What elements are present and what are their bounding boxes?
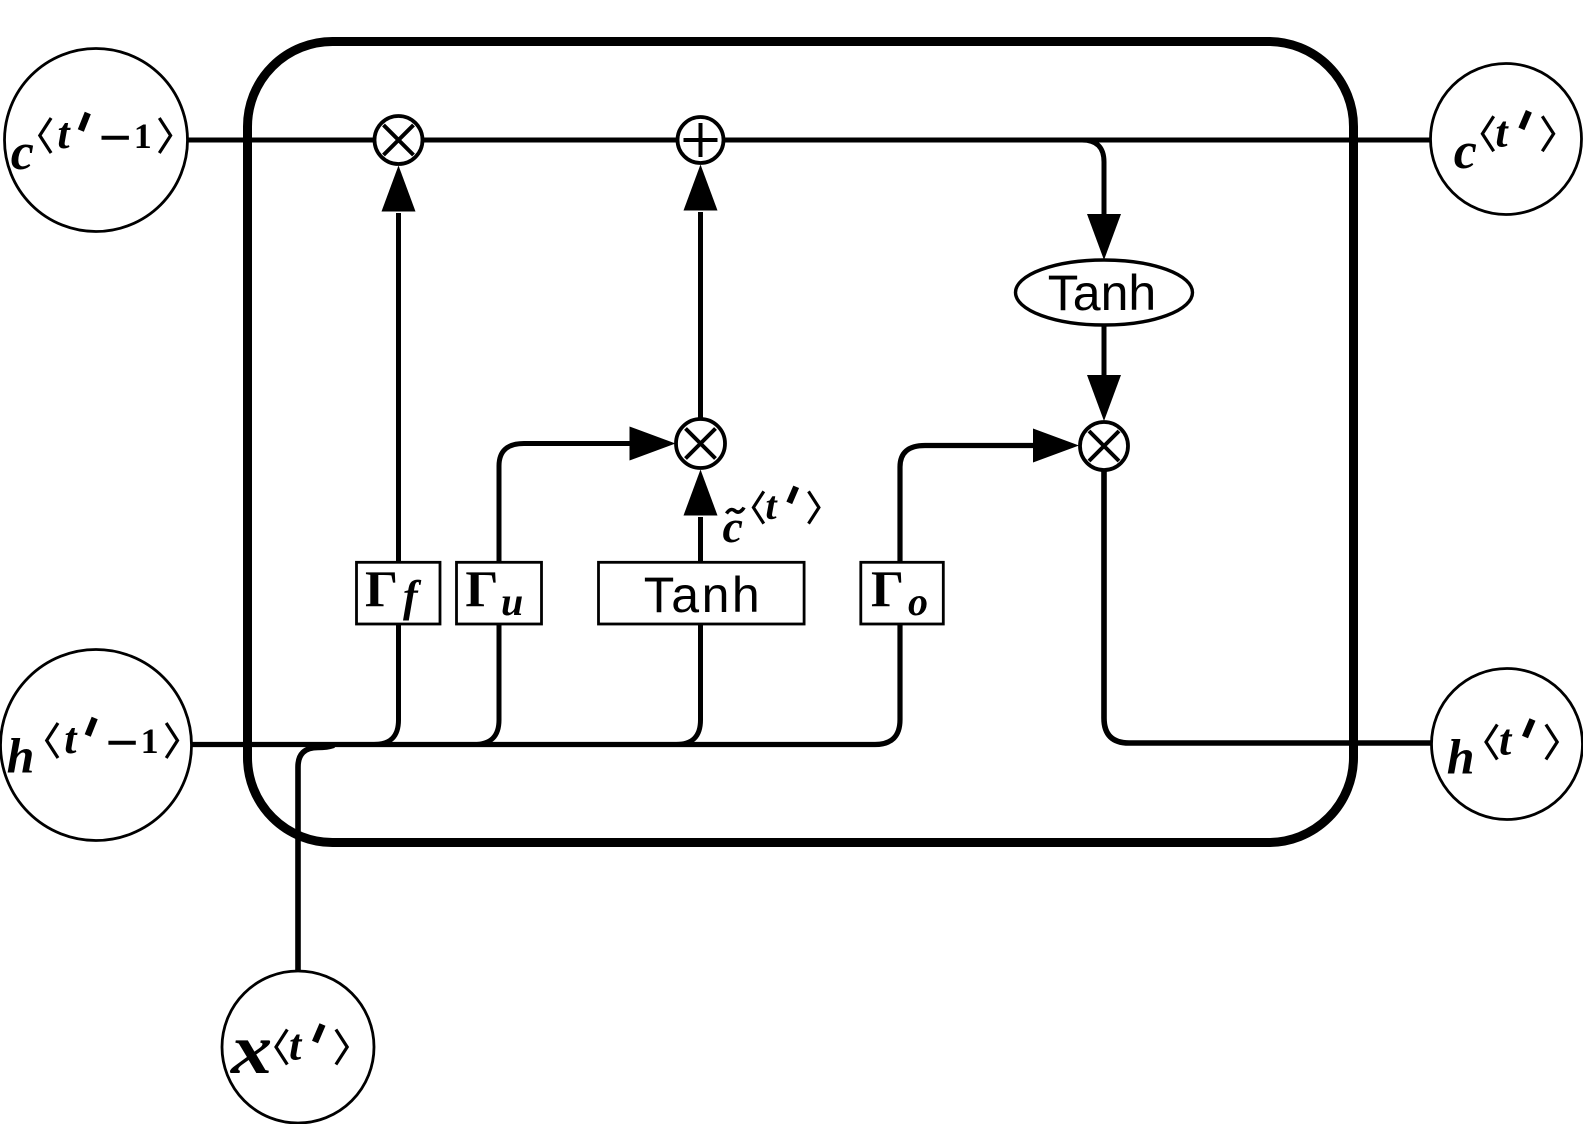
svg-text:c: c: [1454, 123, 1477, 180]
svg-text:t: t: [64, 714, 78, 763]
svg-text:h: h: [1447, 729, 1475, 785]
svg-text:u: u: [501, 579, 523, 624]
svg-text:Γ: Γ: [365, 562, 398, 619]
svg-text:Γ: Γ: [465, 562, 498, 619]
svg-text:t: t: [1495, 107, 1509, 156]
svg-text:h: h: [7, 728, 35, 784]
svg-text:o: o: [908, 579, 928, 624]
svg-text:1: 1: [134, 116, 152, 156]
svg-text:t: t: [765, 483, 778, 528]
svg-text:t: t: [57, 109, 71, 158]
svg-text:Tanh: Tanh: [644, 567, 762, 623]
svg-text:Γ: Γ: [871, 562, 904, 619]
svg-text:Tanh: Tanh: [1048, 265, 1156, 321]
svg-text:c: c: [11, 124, 34, 181]
svg-text:x: x: [230, 1010, 272, 1088]
svg-text:t: t: [1499, 716, 1513, 765]
svg-text:t: t: [289, 1021, 303, 1070]
svg-text:1: 1: [141, 721, 159, 761]
